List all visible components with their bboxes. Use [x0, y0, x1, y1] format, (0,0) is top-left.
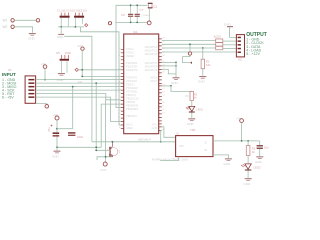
svg-text:T1: T1	[117, 149, 121, 153]
svg-text:GND: GND	[244, 182, 252, 186]
crystal bottom rail wire	[116, 5, 147, 22]
wire rail down to IC	[116, 22, 121, 107]
IC1 left pin name texts	[126, 47, 139, 130]
svg-text:28: 28	[162, 55, 165, 57]
wire row5 branch down	[105, 100, 107, 157]
junction base end	[95, 149, 97, 151]
svg-text:100n: 100n	[65, 51, 72, 55]
svg-text:PB2/SS: PB2/SS	[126, 100, 135, 104]
capacitor C6 plates	[128, 14, 133, 15]
svg-text:PB1/OC1A: PB1/OC1A	[126, 96, 139, 100]
junction row3	[72, 86, 74, 88]
svg-text:18: 18	[162, 102, 165, 104]
capacitor C6 lead bottom	[130, 17, 132, 23]
svg-text:PB0/ICP: PB0/ICP	[126, 93, 136, 97]
junction row 66	[175, 65, 177, 67]
capacitor bank C3 C4 plates	[74, 16, 84, 18]
svg-text:1k: 1k	[252, 150, 256, 154]
svg-text:PD2/INT0: PD2/INT0	[126, 68, 138, 72]
AREF loop end tick	[191, 62, 192, 64]
capacitor C1 C2 pins	[61, 13, 68, 16]
svg-text:10n: 10n	[264, 145, 269, 149]
svg-text:PB4/MISO: PB4/MISO	[126, 107, 138, 111]
svg-text:14: 14	[118, 92, 121, 94]
junction AREF row	[189, 43, 191, 45]
resistor RN1c	[216, 46, 223, 49]
wire AREF loop	[183, 55, 192, 62]
svg-text:24: 24	[162, 41, 165, 43]
svg-text:GND: GND	[224, 162, 232, 166]
wire row 62 to gnd net	[162, 61, 176, 63]
svg-text:GND: GND	[57, 35, 63, 39]
svg-text:ADC2/PC2: ADC2/PC2	[145, 52, 158, 56]
wire long collector rail	[92, 141, 176, 143]
svg-text:AREF: AREF	[126, 126, 133, 130]
op-amp IC1 MEGA8 body	[124, 34, 159, 134]
wire IC row to RN pill 3	[162, 47, 216, 49]
transformer TR1 body	[176, 136, 213, 157]
svg-text:ADC4/PC4: ADC4/PC4	[145, 65, 158, 69]
svg-text:AVCC: AVCC	[126, 122, 133, 126]
svg-text:3x220: 3x220	[214, 35, 222, 39]
wire ground to output pin1	[230, 27, 237, 37]
capacitor C10 plates	[257, 145, 263, 146]
svg-text:C5 10n: C5 10n	[79, 10, 88, 13]
capacitor C1 C2 leads	[61, 18, 68, 27]
wire input row2 MOSI	[36, 82, 121, 84]
wire IC pin to bottom rail	[101, 104, 121, 147]
svg-text:PD0/RXD: PD0/RXD	[126, 61, 137, 65]
svg-text:LED2: LED2	[254, 166, 261, 170]
junction C8 bottom	[56, 146, 58, 148]
crystal top rail wire	[116, 4, 148, 6]
svg-text:ADC5/PC5: ADC5/PC5	[145, 68, 158, 72]
wire pad mid top	[108, 22, 111, 25]
capacitor C6 lead top	[130, 5, 132, 13]
wire W1 to W3	[14, 19, 36, 21]
wire pad W3	[36, 19, 39, 22]
svg-text:17: 17	[162, 95, 165, 97]
wire RN1b to output	[223, 44, 237, 46]
wire R1 top lead	[247, 141, 249, 146]
transistor Q2 body circle	[110, 148, 118, 156]
wire C10 to ground	[259, 149, 261, 156]
connector X2 pads	[238, 37, 241, 39]
svg-text:15: 15	[162, 88, 165, 90]
svg-text:PD7/AIN1: PD7/AIN1	[126, 89, 138, 93]
svg-text:16: 16	[162, 91, 165, 93]
junction base row2	[95, 82, 97, 84]
junction on rail at C3	[75, 26, 77, 28]
LED LED2 arrows	[241, 164, 245, 167]
svg-text:PRI: PRI	[179, 144, 184, 148]
svg-text:12: 12	[162, 109, 165, 111]
wire RN1c to output	[223, 48, 237, 50]
capacitor bank C1 C2 plates	[60, 16, 70, 18]
connector X1 pads	[28, 79, 34, 81]
net arrow diamond VCC	[85, 24, 88, 27]
wire base feed vertical	[96, 83, 109, 150]
svg-text:C6: C6	[121, 13, 125, 17]
wire IC row to output pin5	[162, 51, 237, 53]
capacitor C10 lead	[259, 141, 261, 145]
svg-text:PB3/MOSI: PB3/MOSI	[126, 103, 139, 107]
wire IC row to RN pill 1	[162, 40, 216, 42]
svg-text:PD3/INT1: PD3/INT1	[126, 75, 138, 79]
capacitor C3 C4 pins	[75, 13, 82, 16]
svg-text:GND: GND	[152, 126, 158, 130]
svg-text:RST: RST	[78, 44, 84, 48]
wire +5V pad down	[44, 68, 46, 79]
wire emitter run	[97, 157, 113, 160]
wire input tail to pad	[36, 103, 47, 106]
svg-text:OUT: OUT	[101, 168, 107, 172]
wire pad W2	[11, 25, 14, 28]
svg-text:20: 20	[118, 113, 121, 115]
svg-text:ADC1/PC1: ADC1/PC1	[145, 48, 158, 52]
IC1 right pin stubs	[159, 39, 162, 130]
svg-text:23: 23	[162, 37, 165, 39]
wire transformer bottom pin	[160, 157, 178, 161]
svg-text:PD1/TXD: PD1/TXD	[126, 65, 137, 69]
wire gnd net vertical	[175, 62, 177, 77]
capacitor C3 C4 leads	[75, 18, 82, 27]
wire LED1 to ground	[191, 113, 193, 119]
resistor R3	[190, 91, 194, 100]
wire pad below connector	[45, 105, 49, 109]
wire cap row right	[57, 128, 73, 130]
wire IC to transformer top	[162, 127, 176, 137]
wire GND net to vertical	[64, 36, 92, 142]
svg-text:6 - +5V: 6 - +5V	[2, 95, 14, 99]
LED LED1	[189, 106, 195, 111]
svg-text:20: 20	[162, 71, 165, 73]
svg-text:GND: GND	[255, 160, 263, 164]
svg-text:TR1: TR1	[190, 128, 196, 132]
wire pad under crystal	[147, 21, 151, 25]
svg-text:IC1: IC1	[133, 30, 138, 34]
svg-text:PD6/AIN0: PD6/AIN0	[126, 86, 138, 90]
IC1 left pin numbers	[118, 48, 121, 129]
wire R2 top lead	[202, 48, 204, 59]
capacitor C7 lead top	[136, 5, 138, 13]
svg-text:G1: G1	[176, 132, 180, 135]
wire R3 to LED1	[191, 100, 193, 106]
wire R1 to LED2	[247, 155, 249, 163]
junction C7 bottom	[136, 22, 138, 24]
junction row 86	[170, 85, 172, 87]
wire LED2 to ground	[247, 171, 249, 178]
wire W2 to ground	[14, 27, 32, 33]
ground GND2 mid-top	[60, 27, 62, 34]
svg-text:16MHz: 16MHz	[143, 15, 150, 17]
capacitor C7 plates	[135, 14, 140, 15]
svg-text:GND: GND	[28, 37, 36, 41]
node AREF pad	[188, 52, 191, 55]
capacitor C5 plates	[60, 59, 69, 61]
ground under LED2	[245, 178, 252, 179]
svg-text:GND: GND	[187, 122, 195, 126]
wire pad W1	[11, 19, 14, 22]
svg-text:47u: 47u	[47, 127, 51, 132]
resistor RN1b	[216, 43, 223, 46]
wire input row4 SCK	[36, 89, 121, 91]
wire HV pad down	[241, 123, 243, 141]
svg-text:ADC6: ADC6	[150, 75, 157, 79]
wire input row1 GND	[36, 79, 121, 81]
wire emitter to pad	[105, 157, 107, 162]
ground right of IC	[173, 77, 180, 78]
svg-text:W1: W1	[3, 19, 8, 23]
svg-text:R3: R3	[185, 94, 189, 98]
wire C8 bottom lead and row	[57, 146, 101, 148]
wire IC to transformer second	[161, 130, 162, 141]
wire vertical from row3	[72, 87, 74, 129]
junction +5V row1	[44, 79, 46, 81]
svg-text:X2: X2	[238, 58, 242, 62]
junction R1 tap	[247, 140, 249, 142]
net arrow diamond reset	[75, 68, 78, 71]
crystal Q1	[148, 3, 152, 8]
junction emitter	[105, 156, 107, 158]
svg-text:MEGA8-P: MEGA8-P	[138, 137, 151, 141]
wire row 69 jog	[162, 69, 176, 74]
junction collector rail	[112, 141, 114, 143]
svg-text:ADC0/PC0: ADC0/PC0	[145, 45, 158, 49]
junction C6 bottom	[130, 22, 132, 24]
ground under LED1	[188, 118, 195, 119]
wire diamond row	[78, 69, 120, 71]
svg-text:GND: GND	[224, 22, 232, 26]
svg-text:25: 25	[162, 44, 165, 46]
svg-text:S1: S1	[204, 141, 208, 145]
crystal Q1 bottom lead	[148, 8, 150, 21]
wire IC row to RN pill 2	[162, 43, 216, 45]
transistor Q2 emitter arrow	[111, 155, 113, 157]
junction base cap row	[95, 146, 97, 148]
capacitor C5 leads down	[61, 61, 67, 73]
svg-text:ADC7: ADC7	[150, 79, 157, 83]
wire RESET vertical	[81, 50, 83, 76]
transistor Q2 collector	[111, 142, 113, 149]
junction C7 top	[136, 4, 138, 6]
capacitor C8 plus mark	[51, 125, 53, 127]
wire input row3 MISO	[36, 86, 121, 88]
svg-text:15: 15	[118, 96, 121, 98]
svg-text:INPUT: INPUT	[2, 72, 16, 77]
svg-text:VCC: VCC	[152, 122, 158, 126]
ground under W2 wire	[29, 33, 36, 34]
junction on rail at C1	[60, 26, 62, 28]
wire input row5 RST	[36, 94, 121, 100]
LED LED2	[245, 164, 251, 169]
wire input row6 VCC	[36, 97, 121, 121]
svg-text:XTAL1: XTAL1	[126, 47, 134, 51]
ground under secondary	[225, 158, 232, 159]
junction cap row	[56, 128, 58, 130]
transistor Q2 base bar	[109, 147, 110, 157]
wire transformer secondary gnd	[213, 155, 228, 158]
junction row 76	[81, 76, 83, 78]
junction diamond row	[81, 69, 83, 71]
junction row 62	[175, 62, 177, 64]
svg-text:LED1: LED1	[196, 107, 203, 111]
svg-text:11: 11	[162, 105, 165, 107]
svg-text:W2: W2	[3, 25, 8, 29]
resistor R2 tap junction	[202, 47, 204, 49]
capacitor C5 pins top	[61, 55, 68, 59]
junction C6 top	[130, 4, 132, 6]
ground under C10	[256, 156, 263, 157]
svg-text:PD5/T1: PD5/T1	[126, 82, 135, 86]
wire row 86 to LED chain	[162, 85, 171, 87]
svg-text:GND: GND	[198, 80, 206, 84]
LED LED1 arrows	[186, 107, 190, 110]
svg-text:ADC3/PC3: ADC3/PC3	[145, 61, 158, 65]
ground under C5	[58, 73, 65, 74]
wire +9V down	[56, 120, 58, 147]
ground under R2	[199, 76, 206, 77]
wire AREF up to row	[189, 44, 191, 52]
wire LED chain feed	[171, 86, 192, 92]
resistor RN1a	[216, 39, 223, 42]
svg-text:PD4/XCK: PD4/XCK	[126, 79, 137, 83]
resistor R1	[246, 146, 250, 156]
svg-text:X1: X1	[8, 68, 12, 72]
svg-text:10: 10	[118, 51, 121, 53]
resistor R2	[201, 59, 205, 68]
connector X2 OUTPUT body	[236, 35, 244, 57]
wire row 76	[82, 75, 121, 77]
svg-text:RESET: RESET	[126, 54, 135, 58]
wire from rail down right	[81, 27, 121, 125]
svg-text:13: 13	[162, 112, 165, 114]
wire transformer secondary out	[213, 140, 260, 142]
IC1 right pin name texts	[145, 45, 158, 130]
svg-text:XTAL2: XTAL2	[126, 50, 134, 54]
wire row 66 to gnd net	[162, 65, 176, 67]
capacitor C8 plates	[53, 132, 60, 134]
wire R2 bottom lead	[202, 69, 204, 76]
junction HV rail	[241, 140, 243, 142]
svg-text:21: 21	[118, 117, 121, 119]
IC1 left pin stubs	[121, 49, 124, 128]
wire cap bank rail	[58, 26, 84, 28]
capacitor C9 plates	[68, 132, 75, 133]
svg-text:GND: GND	[52, 155, 60, 159]
svg-text:C7: C7	[140, 8, 144, 12]
connector X1 INPUT body	[25, 76, 35, 103]
ground under C8	[56, 147, 58, 150]
svg-text:S2: S2	[204, 148, 208, 152]
wire RN1a to output	[223, 40, 237, 42]
IC1 right pin numbers	[162, 37, 165, 130]
svg-text:10k: 10k	[206, 63, 211, 67]
svg-text:Q1: Q1	[153, 4, 157, 8]
transistor Q2 emitter	[111, 154, 113, 157]
capacitor C7 lead bottom	[136, 17, 138, 23]
svg-text:GND: GND	[171, 81, 179, 85]
svg-text:100n: 100n	[77, 135, 84, 139]
svg-text:PB5/SCK: PB5/SCK	[126, 114, 137, 118]
wire pad under transistor	[103, 162, 107, 166]
node RESET pad	[81, 47, 84, 50]
svg-text:C5: C5	[56, 51, 60, 55]
svg-text:5 - +12V: 5 - +12V	[246, 52, 260, 56]
svg-text:19: 19	[118, 110, 121, 112]
junction transformer feed	[160, 141, 162, 143]
